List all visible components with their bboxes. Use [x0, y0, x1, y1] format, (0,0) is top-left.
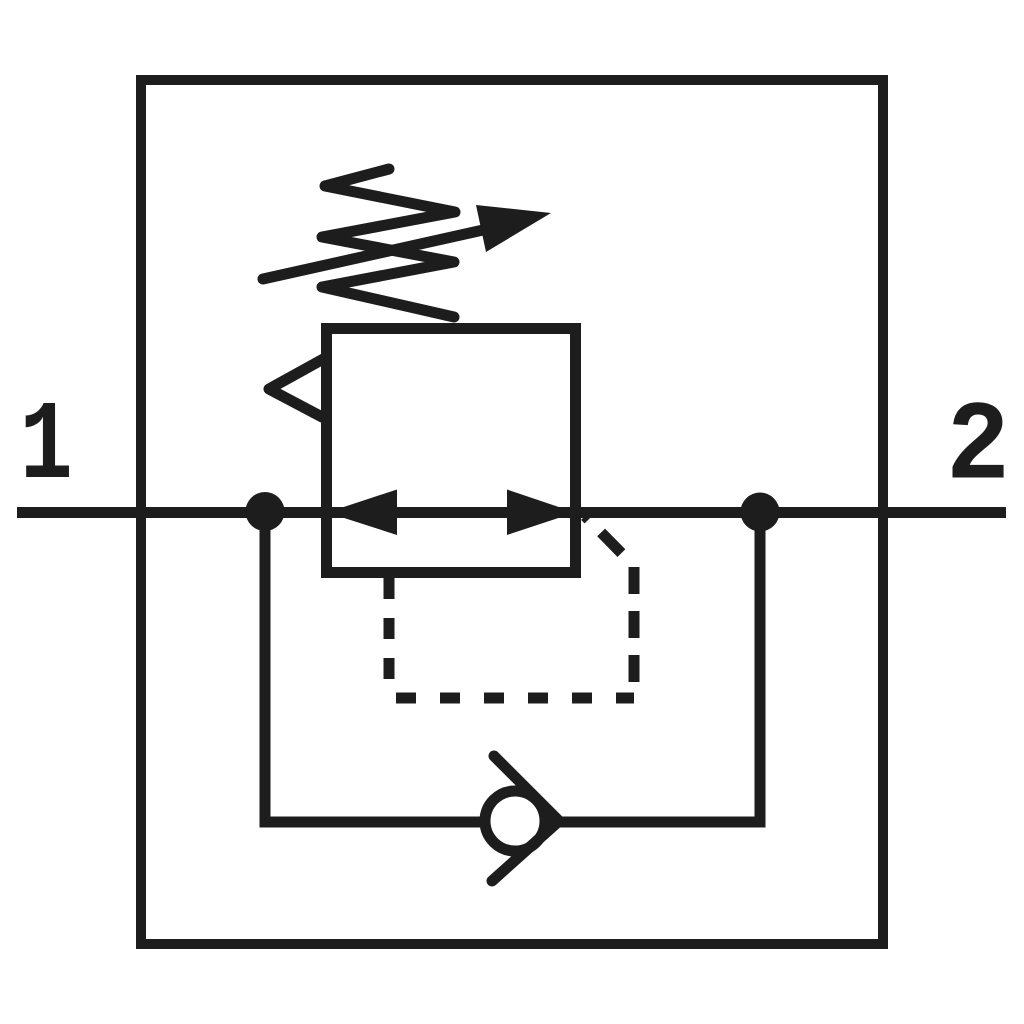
svg-text:1: 1 — [20, 385, 73, 512]
svg-text:2: 2 — [946, 384, 1010, 511]
